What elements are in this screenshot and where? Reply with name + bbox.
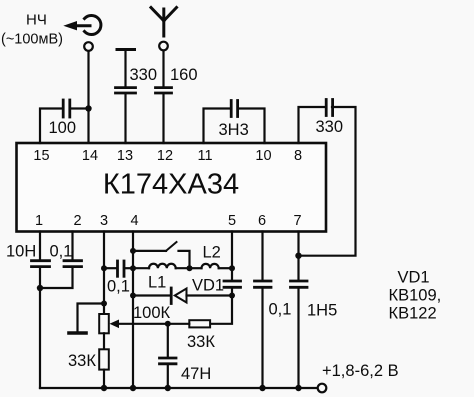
svg-text:33К: 33К [187,333,215,351]
node junction pin14/cap100 [85,105,91,111]
wire pin 14 to НЧ terminal [87,51,89,143]
svg-text:КВ109,: КВ109, [389,287,442,305]
inductor L1 [133,264,190,268]
capacitor 330 (pin 13) [116,88,136,93]
node junction rail pin7 [295,385,301,391]
svg-text:15: 15 [33,148,49,164]
capacitor 0,1 (pins 3-4) [104,261,133,276]
svg-text:0,1: 0,1 [269,301,292,319]
wire resistor to rail [103,370,105,388]
svg-text:КВ122: КВ122 [389,305,437,323]
wire pin 6 column [261,232,263,389]
node junction pin4/varicap [130,293,136,299]
potentiometer 100К body [99,314,109,333]
svg-text:VD1: VD1 [192,277,224,295]
svg-text:14: 14 [82,148,98,164]
svg-text:11: 11 [197,148,212,164]
node junction pin5/L2 [229,265,235,271]
node junction pin4/switch [130,248,136,254]
node junction 47Н [165,321,171,327]
svg-text:12: 12 [157,148,173,164]
wire pot to resistor [103,333,105,349]
antenna W1 [151,8,177,37]
svg-text:330: 330 [130,66,158,84]
svg-text:(~100мВ): (~100мВ) [1,32,63,48]
node junction pin5/varicap [229,293,235,299]
wire bridge pin 8 to pin 7 [299,107,356,256]
pin labels bottom [35,213,302,229]
svg-text:5: 5 [228,213,236,229]
node junction pin3/ground [101,301,107,307]
inductor L2 [190,264,233,268]
svg-text:2: 2 [73,213,81,229]
resistor 33К (horizontal) [189,320,210,327]
svg-text:7: 7 [293,213,301,229]
node junction rail pin6 [259,385,265,391]
svg-text:1Н5: 1Н5 [307,302,337,320]
svg-text:VD1: VD1 [398,269,430,287]
capacitor 0,1 (pin 6) [255,281,272,287]
wire pin 1 column [39,232,41,389]
capacitor 0,1 (pin 2) [64,261,82,267]
output arrow symbol [63,16,101,35]
node junction L1/L2/switch [187,265,193,271]
svg-text:330: 330 [316,118,344,136]
wire bridge pins 11-10 [204,109,265,144]
varicap VD1 [133,288,232,304]
bottom rail wire [40,387,318,389]
capacitor 10Н [32,261,50,267]
capacitor 1Н5 (pin 7) [291,281,308,287]
node junction pin3/cap [101,265,107,271]
wire pin 13 vertical + top bar [124,94,126,144]
svg-text:8: 8 [294,148,302,164]
wire pin 3 column [103,232,105,315]
node junction rail 47Н [165,385,171,391]
svg-text:47Н: 47Н [181,365,211,383]
pin labels top [33,148,302,164]
node junction rail pin3 [101,385,107,391]
svg-text:160: 160 [170,66,198,84]
capacitor 47Н [160,324,177,388]
svg-text:33К: 33К [68,352,96,370]
svg-text:К174ХА34: К174ХА34 [103,169,239,201]
svg-text:100: 100 [49,119,77,137]
resistor 33К (vertical) [99,349,109,369]
capacitor 330 (pin 8) [326,100,332,116]
svg-text:10Н: 10Н [6,243,36,261]
svg-text:L1: L1 [148,274,166,292]
node junction pin4/L1 [130,265,136,271]
terminal antenna [159,42,168,51]
capacitor (pin 5) [224,281,241,287]
svg-text:0,1: 0,1 [107,278,130,296]
svg-text:3: 3 [100,213,108,229]
node junction pin 7 / right loop [295,253,301,259]
wire pin 2 column [40,232,73,289]
svg-text:4: 4 [130,213,138,229]
node junction rail pin4 [130,385,136,391]
wire pin 4 column [132,232,134,389]
capacitor 100 [63,100,88,117]
wire pin 12 to antenna terminal [162,51,164,144]
svg-text:100К: 100К [133,304,171,322]
svg-text:1: 1 [35,213,43,229]
ground [69,304,104,334]
capacitor 160 [156,88,172,93]
svg-text:0,1: 0,1 [50,243,73,261]
svg-text:НЧ: НЧ [26,12,47,29]
node junction pin1/pin2 [37,285,43,291]
svg-text:+1,8-6,2 В: +1,8-6,2 В [322,362,399,380]
svg-text:13: 13 [117,148,133,164]
capacitor 3Н3 [231,101,237,117]
wire wiper line with arrow to potentiometer [110,320,190,329]
svg-text:L2: L2 [203,244,221,262]
supply terminal [318,384,327,393]
switch SA1 [133,242,190,268]
wire pin 15 to cap 100 [40,109,61,144]
svg-text:10: 10 [255,148,271,164]
IC U1 К174ХА34 [17,143,327,232]
svg-text:3Н3: 3Н3 [219,121,249,139]
wire pin 5 column [211,232,233,324]
wire pin 7 column [297,232,299,389]
svg-text:6: 6 [258,213,266,229]
terminal НЧ [84,42,93,51]
